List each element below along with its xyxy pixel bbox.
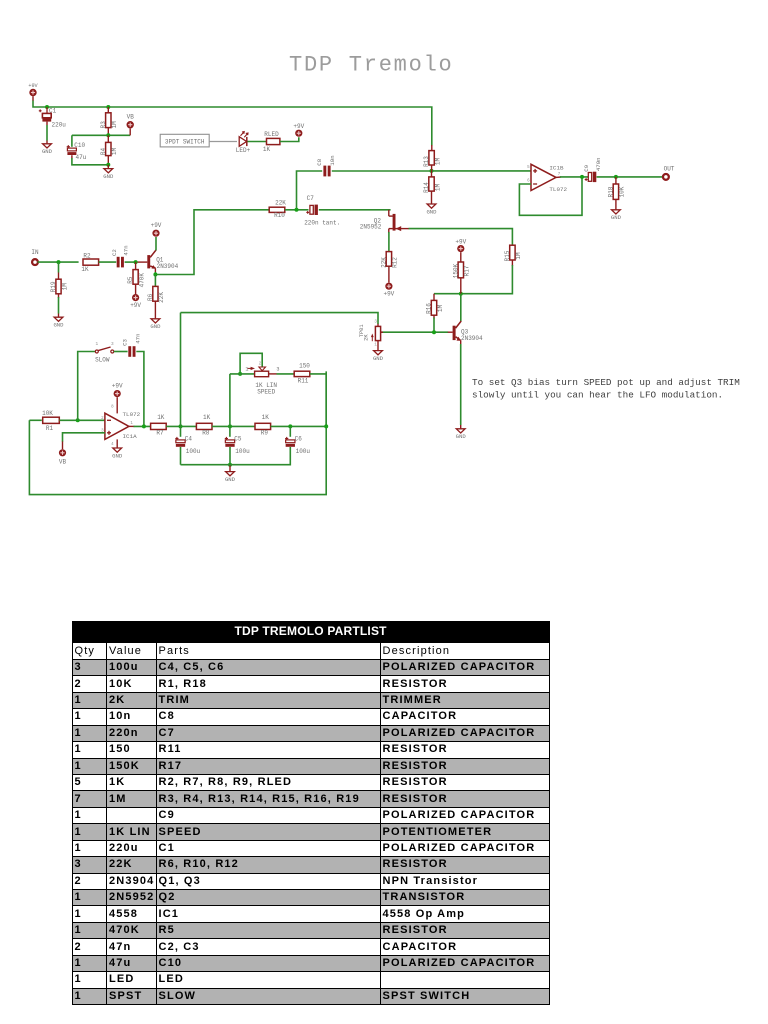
wire 3PDT box to LED (gray)	[209, 141, 237, 143]
wire Q1 collector to +9V	[155, 237, 157, 250]
svg-text:R16: R16	[426, 303, 433, 314]
wire Q1 emitter node	[154, 268, 156, 272]
power +9V above Q1	[152, 230, 159, 237]
power +9V top-left	[29, 89, 36, 96]
svg-text:OUT: OUT	[664, 166, 675, 173]
capacitor C9	[588, 173, 591, 182]
svg-text:C8: C8	[316, 158, 323, 165]
resistor R16	[433, 294, 435, 301]
node R13 R14 junction	[430, 169, 434, 173]
supply VB at IC1A + input	[59, 449, 66, 456]
resistor R2	[83, 259, 99, 265]
node Q3 base junction	[432, 330, 436, 334]
resistor R12	[386, 252, 391, 267]
resistor R14	[431, 171, 433, 177]
svg-text:GND: GND	[225, 476, 236, 483]
node VB junction	[106, 133, 110, 137]
node rail ground junction	[228, 463, 232, 467]
svg-text:3: 3	[111, 342, 114, 347]
node Q1 emitter junction	[153, 273, 157, 277]
svg-text:slowly until you can hear the: slowly until you can hear the LFO modula…	[472, 390, 723, 401]
capacitor C1	[46, 107, 48, 113]
capacitor C3	[128, 346, 131, 357]
svg-text:R13: R13	[423, 156, 430, 167]
ground below R6	[151, 319, 160, 323]
svg-text:C9: C9	[583, 164, 590, 171]
svg-text:To set Q3 bias turn SPEED pot: To set Q3 bias turn SPEED pot up and adj…	[472, 377, 740, 388]
svg-text:2K: 2K	[364, 334, 370, 341]
svg-text:1K: 1K	[203, 414, 211, 421]
wire TRIM net down to C4	[180, 313, 182, 437]
svg-text:1M: 1M	[111, 121, 118, 129]
svg-text:+9V: +9V	[130, 302, 141, 309]
svg-text:VB: VB	[59, 458, 67, 465]
svg-text:2N3904: 2N3904	[461, 335, 483, 342]
svg-text:1K: 1K	[262, 414, 270, 421]
resistor R9	[255, 423, 271, 429]
svg-text:C2: C2	[111, 249, 118, 256]
svg-text:47n: 47n	[122, 245, 129, 255]
node pot wiper tie junction	[238, 372, 242, 376]
svg-text:+9V: +9V	[112, 383, 123, 390]
svg-text:5: 5	[527, 166, 530, 170]
wire R19 to ground	[58, 297, 60, 314]
node SLOW branch junction	[76, 418, 80, 422]
wire SLOW switch net	[78, 352, 96, 421]
svg-text:GND: GND	[373, 355, 384, 362]
wire R10 to C7	[285, 209, 309, 211]
terminal OUT	[663, 174, 669, 180]
node feedback junction	[580, 175, 584, 179]
wire R9 to right rail	[271, 425, 327, 427]
wire C2 to Q1 base	[125, 261, 136, 263]
svg-text:GND: GND	[456, 433, 467, 440]
svg-text:100u: 100u	[296, 448, 311, 455]
wire C10 bottom to R4 bottom	[71, 155, 73, 158]
svg-text:R7: R7	[156, 430, 164, 437]
wire R2 to C2	[99, 261, 117, 263]
svg-text:R5: R5	[127, 276, 134, 284]
wire C5 to rail and ground	[229, 447, 231, 465]
svg-text:1: 1	[245, 367, 248, 373]
svg-text:1K: 1K	[81, 266, 89, 273]
wire R17 node to Q3 collector	[460, 294, 462, 322]
transistor Q1 2N3904	[147, 255, 150, 268]
resistor R13	[431, 145, 433, 151]
svg-text:GND: GND	[103, 173, 114, 180]
svg-text:R3: R3	[100, 121, 107, 129]
svg-text:IN: IN	[31, 249, 39, 256]
resistor R8	[196, 423, 212, 429]
svg-text:+9V: +9V	[383, 291, 394, 298]
svg-text:TL072: TL072	[549, 186, 567, 193]
wire VB to IC1A +	[63, 433, 105, 442]
node R19 junction	[57, 260, 61, 264]
node C6 junction	[288, 424, 292, 428]
svg-text:22K: 22K	[381, 257, 388, 268]
wire C4 to rail	[180, 447, 182, 465]
svg-text:1: 1	[374, 344, 377, 348]
capacitor C2	[117, 257, 120, 268]
wire node to op-amp IC1B +	[432, 170, 532, 172]
wire C3 to IC1A output	[136, 352, 144, 427]
wire IC1A output	[129, 425, 135, 427]
wire pot terminal 1 left	[230, 373, 255, 375]
svg-text:2N3904: 2N3904	[157, 263, 179, 270]
svg-text:220u: 220u	[52, 122, 67, 129]
svg-text:GND: GND	[150, 323, 161, 330]
ground below R4	[104, 169, 113, 173]
svg-text:TL072: TL072	[123, 411, 141, 418]
svg-text:C4: C4	[185, 436, 193, 443]
op-amp IC1B	[531, 164, 556, 190]
svg-text:1M: 1M	[434, 158, 441, 166]
svg-text:GND: GND	[611, 214, 622, 221]
ground below R14	[427, 204, 436, 208]
resistor R17	[458, 262, 463, 278]
wire bottom feedback rail	[29, 371, 326, 494]
svg-text:1: 1	[130, 422, 133, 426]
wire VB to C10	[71, 135, 73, 147]
wire LFO feed to TRIM	[181, 313, 379, 324]
svg-text:R12: R12	[392, 257, 399, 268]
svg-text:150K: 150K	[452, 263, 459, 278]
wire SPEED net down to C5	[229, 374, 231, 437]
svg-text:220n tant.: 220n tant.	[304, 220, 340, 227]
potentiometer SPEED 1K LIN	[259, 367, 266, 371]
wire switch to C3	[114, 351, 128, 353]
svg-text:3: 3	[374, 321, 377, 325]
svg-text:R1: R1	[46, 425, 54, 432]
capacitor C4	[176, 440, 185, 443]
svg-text:SPEED: SPEED	[257, 389, 275, 396]
ground below Q3	[456, 429, 465, 433]
svg-text:RLED: RLED	[264, 131, 279, 138]
wire Q3 base	[381, 331, 448, 333]
wire pot to R11	[277, 373, 295, 375]
svg-text:R8: R8	[202, 430, 210, 437]
switch SLOW SPST	[95, 350, 98, 353]
transistor Q3 2N3904	[453, 326, 456, 340]
wire SPEED pot wiper loop	[240, 353, 262, 374]
svg-text:10K: 10K	[619, 186, 626, 197]
svg-text:1M: 1M	[434, 184, 441, 192]
svg-text:VB: VB	[127, 114, 135, 121]
svg-text:C7: C7	[307, 195, 315, 202]
svg-text:3PDT SWITCH: 3PDT SWITCH	[165, 139, 205, 146]
power +9V below R5	[132, 294, 139, 301]
svg-text:+9V: +9V	[455, 239, 466, 246]
resistor R3	[107, 107, 109, 113]
node R5 junction	[134, 260, 138, 264]
wire C6 to rail	[181, 447, 291, 465]
wire VB net	[72, 134, 130, 136]
svg-text:GND: GND	[112, 452, 123, 459]
svg-text:SLOW: SLOW	[95, 357, 110, 364]
svg-text:2N5952: 2N5952	[360, 223, 382, 230]
op-amp IC1A	[105, 413, 129, 439]
svg-text:R15: R15	[504, 250, 511, 261]
wire IN to R2	[38, 261, 79, 263]
wire LFO to C8	[297, 171, 323, 210]
wire C1 to ground	[46, 122, 48, 125]
svg-text:1M: 1M	[111, 148, 118, 156]
wire C8 to R13/R14 node	[332, 170, 432, 172]
wire Q1 emitter to R10	[155, 210, 269, 275]
wire R1 to IC1A inverting input	[59, 419, 105, 421]
wire C9 to OUT	[597, 176, 663, 178]
partlist table	[72, 642, 550, 1005]
svg-text:4: 4	[111, 443, 114, 447]
ground below TRIM	[374, 351, 383, 355]
power +9V below R12	[385, 283, 392, 290]
power +9V at RLED	[295, 130, 302, 137]
svg-text:1M: 1M	[437, 305, 444, 313]
resistor R15	[510, 245, 515, 260]
svg-text:470n: 470n	[595, 157, 602, 171]
resistor R7	[151, 423, 167, 429]
svg-text:3: 3	[276, 367, 279, 373]
svg-text:C10: C10	[74, 142, 85, 149]
svg-text:150: 150	[299, 363, 310, 370]
svg-text:10n: 10n	[329, 155, 336, 165]
wire R7 to R8	[166, 425, 196, 427]
svg-text:47u: 47u	[76, 154, 87, 161]
svg-text:+9V: +9V	[28, 83, 38, 89]
resistor R1	[29, 419, 41, 421]
svg-text:LED+: LED+	[236, 147, 251, 154]
svg-text:R18: R18	[608, 186, 615, 197]
wire R8 to R9	[212, 425, 255, 427]
ground below C1	[43, 144, 52, 148]
svg-text:100u: 100u	[186, 448, 201, 455]
svg-text:1: 1	[95, 342, 98, 347]
resistor R4	[107, 135, 109, 142]
resistor R18	[615, 177, 617, 184]
svg-text:R9: R9	[261, 430, 269, 437]
wire R15 to R17 node	[434, 265, 512, 294]
node C5 junction	[228, 424, 232, 428]
resistor RLED	[267, 138, 280, 144]
wire +9V rail	[33, 101, 432, 146]
ground below R19	[54, 317, 63, 321]
resistor R6	[154, 275, 156, 287]
wire RLED to +9V	[280, 137, 299, 141]
svg-text:IC1A: IC1A	[123, 433, 138, 440]
wire Q2 drain to R15	[409, 229, 513, 246]
svg-text:1K: 1K	[263, 146, 271, 153]
svg-text:GND: GND	[426, 208, 437, 215]
svg-text:R6: R6	[147, 293, 154, 301]
svg-text:8: 8	[111, 405, 114, 409]
transistor Q2 2N5952	[388, 210, 390, 216]
supply VB top	[129, 128, 131, 135]
svg-text:R11: R11	[298, 377, 309, 384]
wire IC1B feedback loop	[519, 177, 582, 215]
svg-text:R14: R14	[423, 182, 430, 193]
svg-text:2: 2	[259, 361, 262, 366]
svg-text:6: 6	[527, 180, 530, 184]
capacitor C7	[310, 205, 313, 214]
svg-text:R17: R17	[464, 265, 471, 276]
resistor R19	[58, 262, 60, 272]
svg-text:100u: 100u	[235, 448, 250, 455]
svg-text:1K: 1K	[157, 414, 165, 421]
svg-text:+9V: +9V	[293, 123, 304, 130]
svg-text:1M: 1M	[515, 252, 522, 260]
wire IC1B output	[556, 176, 561, 178]
svg-text:IC1B: IC1B	[549, 164, 564, 171]
svg-text:R2: R2	[83, 252, 91, 259]
svg-text:10K: 10K	[42, 410, 53, 417]
trimmer TP01 2K TRIM	[377, 324, 379, 327]
node C8 branch junction	[295, 208, 299, 212]
svg-text:R4: R4	[100, 148, 107, 156]
svg-text:C6: C6	[295, 436, 303, 443]
node R3 top junction	[106, 105, 110, 109]
capacitor C5	[225, 440, 234, 443]
svg-text:C5: C5	[234, 436, 242, 443]
resistor R10	[269, 207, 285, 212]
ground below rail	[226, 472, 235, 476]
node IC1A output junction	[142, 424, 146, 428]
diode RLED indicator LED	[239, 137, 246, 147]
wire Q3 emitter to ground	[460, 340, 462, 344]
node C1 top junction	[45, 105, 49, 109]
wire LED to RLED	[248, 141, 267, 143]
node R18 junction	[614, 175, 618, 179]
switch box 3PDT SWITCH	[160, 134, 209, 147]
wire R11 to right rail	[310, 374, 326, 427]
node R17 bottom junction	[459, 292, 463, 296]
partlist table caption	[72, 621, 550, 642]
svg-text:22K: 22K	[275, 200, 286, 207]
svg-text:GND: GND	[42, 148, 53, 155]
wire Q2 source to R12	[388, 232, 390, 252]
node right rail junction	[324, 424, 328, 428]
node R4 bottom junction	[106, 163, 110, 167]
svg-text:22K: 22K	[158, 292, 165, 303]
node C4 junction	[179, 424, 183, 428]
terminal IN	[32, 259, 38, 265]
svg-text:R19: R19	[50, 281, 57, 292]
svg-text:R10: R10	[274, 212, 285, 219]
svg-text:C1: C1	[49, 108, 57, 115]
capacitor C6	[289, 426, 291, 436]
ground below IC1A	[116, 439, 118, 447]
resistor R11	[294, 371, 310, 376]
ground below R18	[612, 210, 621, 214]
svg-text:1M: 1M	[61, 283, 68, 291]
svg-text:GND: GND	[53, 322, 64, 329]
svg-text:470K: 470K	[138, 273, 145, 288]
svg-text:C3: C3	[121, 339, 128, 346]
svg-text:TDP Tremolo: TDP Tremolo	[289, 53, 453, 78]
wire C7 to Q2 gate	[319, 209, 391, 211]
capacitor C8	[323, 166, 326, 177]
svg-text:+9V: +9V	[151, 222, 162, 229]
svg-text:47n: 47n	[135, 333, 142, 343]
resistor R5	[135, 262, 137, 270]
wire R16 to Q3 base net	[433, 318, 435, 333]
